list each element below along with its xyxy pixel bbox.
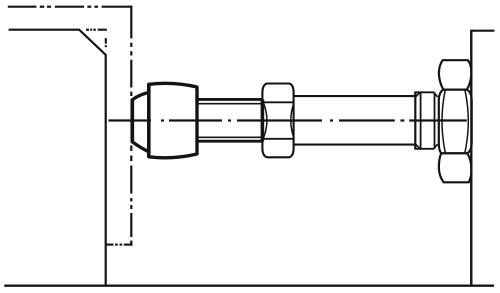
collar: right inner vertical	[434, 92, 436, 149]
big hex nut: upper division line	[443, 89, 467, 91]
hex jam nut: lower division line	[262, 138, 295, 140]
threaded rod: top major line	[197, 98, 263, 101]
hex jam nut: left inner corner arc	[264, 103, 267, 138]
threaded rod: top root line	[198, 103, 262, 105]
big hex nut: left inner corner arc	[442, 90, 445, 152]
big hex nut: lower division line	[441, 152, 467, 154]
collar: bottom-right chamfer	[434, 144, 438, 149]
big hex nut: right inner corner arc	[465, 90, 468, 152]
big hex nut at wall: top band	[439, 60, 471, 89]
collar: left inner vertical	[420, 92, 422, 149]
hex jam nut: left face edge	[261, 100, 265, 142]
threaded rod: bottom root line	[198, 136, 262, 138]
phantom line vertical	[130, 6, 132, 246]
collar: top-right chamfer	[434, 92, 438, 97]
collar: bottom edge	[416, 148, 434, 150]
phantom line top horizontal	[8, 6, 133, 8]
phantom bottom short horizontal	[106, 244, 132, 246]
ball head: edge line between ball and barrel	[147, 84, 151, 158]
collar: top edge	[416, 91, 434, 93]
fixture wall (right part)	[471, 31, 494, 286]
threaded rod: bottom major line	[197, 140, 263, 143]
ball head: left face edge	[130, 99, 134, 142]
collar: top-left chamfer	[416, 92, 420, 97]
big hex nut: middle band	[439, 90, 472, 154]
phantom corner horizontal dots at chamfer	[86, 29, 107, 31]
shank: bottom line	[295, 144, 416, 146]
hex jam nut: upper division line	[262, 101, 295, 103]
hex jam nut: right inner corner arc	[291, 103, 294, 138]
big hex nut: bottom band	[439, 153, 472, 182]
fixture wall line redrawn over nut	[470, 31, 472, 286]
centerline of screw axis	[108, 119, 466, 121]
base plate bottom line	[4, 285, 494, 287]
shank: top line	[295, 95, 416, 97]
phantom corner vertical dashes at chamfer	[105, 38, 107, 44]
collar: bottom-left chamfer	[416, 144, 420, 149]
collar thin hex nut: left face	[414, 91, 416, 149]
workpiece outline (left part)	[9, 30, 106, 286]
ball head of clamping screw: silhouette	[132, 83, 197, 158]
hex jam nut on thread: silhouette	[262, 84, 293, 158]
